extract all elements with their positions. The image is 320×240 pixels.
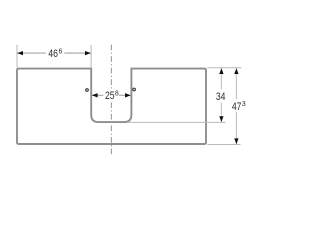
dimension 34 top extension line [207, 67, 241, 69]
dimension 46-6 line right segment [64, 52, 90, 54]
dimension 25-8 line left segment [92, 94, 103, 96]
arrowhead 47-3 top [234, 68, 238, 74]
arrowhead 34 top [219, 68, 223, 74]
svg-text:46: 46 [48, 48, 58, 60]
svg-text:3: 3 [242, 101, 246, 108]
dimension 46-6 extension line right [90, 45, 92, 68]
arrowhead 25-8 left [92, 93, 98, 97]
dimension 34 bottom extension line [127, 121, 226, 123]
centerline [110, 45, 112, 157]
hole left of cutout [86, 89, 89, 92]
dimension 34 line top segment [220, 68, 222, 89]
dimension 47-3 bottom extension line [207, 144, 240, 146]
svg-text:34: 34 [216, 91, 226, 103]
arrowhead 34 bottom [219, 116, 223, 122]
arrowhead 46-6 right [85, 51, 91, 55]
dimension 46-6 extension line left [16, 45, 18, 68]
svg-text:25: 25 [105, 90, 115, 102]
svg-text:47: 47 [232, 101, 242, 113]
dimension 25-8 line right segment [119, 94, 131, 96]
arrowhead 46-6 left [17, 51, 23, 55]
dimension 46-6 line left segment [17, 52, 45, 54]
arrowhead 47-3 bottom [234, 138, 238, 144]
white halo behind 25 text [104, 89, 119, 101]
hole right of cutout [133, 88, 136, 91]
dimension 34 line bottom segment [220, 103, 222, 122]
panel outline with notch cutout [17, 69, 206, 144]
svg-text:6: 6 [59, 48, 63, 55]
dimension 47-3 line bottom segment [235, 112, 237, 144]
arrowhead 25-8 right [125, 93, 131, 97]
svg-text:8: 8 [115, 91, 119, 98]
dimension 47-3 line top segment [235, 68, 237, 99]
